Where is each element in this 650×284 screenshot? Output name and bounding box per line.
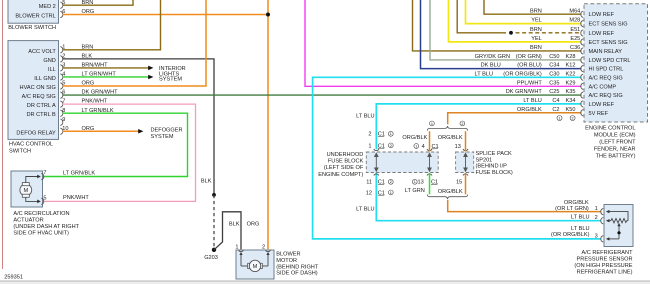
brace split top (427, 126, 468, 131)
svg-text:1: 1 (390, 132, 392, 136)
svg-text:4: 4 (422, 144, 425, 150)
svg-text:BLOWER SWITCH: BLOWER SWITCH (8, 25, 56, 31)
svg-text:GND: GND (43, 58, 55, 64)
svg-text:FUSE BLOCK: FUSE BLOCK (328, 159, 364, 165)
internal wire to pin 7 (26, 177, 38, 183)
motor M circle (20, 184, 32, 196)
svg-text:ACC VOLT: ACC VOLT (28, 49, 56, 55)
svg-text:A/C RECIRCULATION: A/C RECIRCULATION (13, 211, 69, 217)
fuse block pin labels right top (414, 144, 439, 150)
svg-text:1: 1 (390, 191, 392, 195)
svg-text:7: 7 (43, 170, 46, 176)
svg-text:(OR LT GRN): (OR LT GRN) (555, 206, 589, 212)
svg-text:ECT SENS SIG: ECT SENS SIG (589, 40, 628, 46)
svg-text:M28: M28 (569, 18, 580, 24)
wire BLK blower motor to ground (214, 212, 241, 250)
svg-text:(UNDER DASH AT RIGHT: (UNDER DASH AT RIGHT (13, 224, 79, 230)
splice pack (456, 149, 474, 176)
svg-text:LT BLU: LT BLU (571, 214, 589, 220)
svg-text:ORG/BLK: ORG/BLK (517, 107, 542, 113)
svg-text:C30: C30 (549, 71, 559, 77)
svg-text:MED 2: MED 2 (39, 4, 56, 10)
svg-text:M: M (23, 188, 28, 194)
svg-text:ENGINE COMPT): ENGINE COMPT) (318, 172, 363, 178)
page bottom line (0, 280, 650, 282)
svg-text:K34: K34 (566, 98, 576, 104)
svg-text:K22: K22 (566, 71, 576, 77)
wire DK GRN/WHT HVAC pin 6 to ECM A/C REQ SIG (63, 94, 582, 96)
svg-text:1: 1 (431, 122, 433, 126)
svg-text:A/C REQ SIG: A/C REQ SIG (589, 93, 623, 99)
wire BLK HVAC pin 2 (63, 59, 215, 195)
svg-text:1: 1 (368, 143, 371, 149)
svg-text:C36: C36 (570, 45, 580, 51)
fuse block pin labels left top (368, 131, 393, 149)
svg-text:ILL GND: ILL GND (34, 76, 56, 82)
pin 5 blower switch (60, 2, 62, 8)
svg-text:9: 9 (62, 117, 65, 123)
svg-text:A/C REQ SIG: A/C REQ SIG (22, 94, 56, 100)
svg-text:2: 2 (595, 215, 598, 221)
svg-text:E25: E25 (570, 36, 580, 42)
ECM (557, 4, 648, 122)
svg-text:ORG/BLK: ORG/BLK (438, 189, 463, 195)
svg-text:SWITCH: SWITCH (9, 149, 31, 155)
ECM pin arcs (581, 11, 583, 116)
svg-text:2: 2 (461, 122, 463, 126)
svg-text:BLK: BLK (201, 178, 212, 184)
fuse block pin labels left bottom (366, 179, 393, 196)
svg-text:SPLICE PACK: SPLICE PACK (476, 151, 513, 157)
svg-text:(OR ORG/BLK): (OR ORG/BLK) (551, 232, 590, 238)
svg-text:K50: K50 (566, 107, 576, 113)
motor wiring (241, 265, 248, 267)
wire LT GRN/BLK HVAC pin 8 to actuator pin 7 (43, 113, 188, 176)
svg-text:K28: K28 (566, 54, 576, 60)
svg-text:GRY/DK GRN: GRY/DK GRN (475, 54, 510, 60)
svg-text:2: 2 (390, 180, 392, 184)
svg-text:LOW REF: LOW REF (589, 12, 615, 18)
svg-text:A/C REQ SIG: A/C REQ SIG (589, 75, 623, 81)
wire LT BLU inner ECM LOW REF to fuse block (376, 104, 581, 149)
svg-text:REFRIGERANT LINE): REFRIGERANT LINE) (577, 269, 633, 275)
svg-text:ORG: ORG (247, 221, 260, 227)
wire ORG/BLK from ECM 5V REF (448, 113, 582, 124)
wiper arm (617, 223, 620, 226)
svg-text:G203: G203 (204, 255, 218, 261)
wire LT BLU outer loop ECM A/C REQ SIG to sensor pin 3 (313, 77, 601, 239)
svg-text:K29: K29 (566, 80, 576, 86)
svg-text:11: 11 (366, 180, 372, 186)
wire LT BLU fuse block to sensor pin 2 (376, 173, 600, 221)
wire BLK dashed to ground (213, 195, 215, 248)
pin 1 arrow (239, 252, 242, 255)
svg-text:A/C COMP: A/C COMP (589, 84, 617, 90)
wire LT GRN/WHT HVAC pin 4 to interior lights (63, 76, 149, 78)
svg-text:C2: C2 (552, 107, 559, 113)
wire ORG vertical to blower motor pin 2 (267, 0, 269, 249)
svg-text:(ON HIGH PRESSURE: (ON HIGH PRESSURE (574, 263, 632, 269)
svg-text:SYSTEM: SYSTEM (159, 77, 182, 83)
svg-text:LT BLU: LT BLU (356, 113, 374, 119)
blower motor (236, 250, 274, 279)
svg-text:2: 2 (262, 245, 265, 251)
wire ORG HVAC pin 5 to top edge (63, 0, 207, 86)
svg-text:(OR ORG/BLK): (OR ORG/BLK) (503, 71, 542, 77)
svg-text:13: 13 (455, 144, 461, 150)
wire BRN to ECM LOW REF M64 (484, 0, 582, 14)
svg-text:1: 1 (595, 206, 598, 212)
junction dot ORG (266, 13, 270, 17)
svg-text:K35: K35 (566, 89, 576, 95)
svg-text:DEFOG RELAY: DEFOG RELAY (16, 130, 56, 136)
wire YEL to ECM ECT SENS SIG E25 (449, 0, 582, 42)
HVAC pin numbers (62, 44, 68, 131)
svg-text:SP201: SP201 (476, 157, 493, 163)
wire ORG/BLK merged to sensor pin 1 (448, 200, 601, 212)
ground G203 (212, 248, 216, 252)
svg-text:YEL: YEL (531, 18, 542, 24)
svg-text:3: 3 (595, 233, 598, 239)
svg-text:PNK/WHT: PNK/WHT (63, 195, 89, 201)
svg-text:SIDE OF HVAC UNIT): SIDE OF HVAC UNIT) (13, 231, 69, 237)
svg-text:MOTOR: MOTOR (276, 258, 297, 264)
HVAC control switch (8, 41, 59, 140)
svg-text:THE BATTERY): THE BATTERY) (596, 154, 636, 160)
svg-text:ACTUATOR: ACTUATOR (13, 218, 43, 224)
svg-text:1: 1 (235, 245, 238, 251)
svg-text:13: 13 (417, 180, 423, 186)
wire PPL/WHT from top edge to ECM A/C COMP (305, 0, 582, 86)
svg-text:C25: C25 (549, 89, 559, 95)
fuse block pin arcs (374, 149, 432, 176)
pin 1 internal (606, 210, 610, 213)
wire BRN/WHT HVAC pin 3 to interior lights (63, 67, 149, 69)
svg-text:LOW REF: LOW REF (589, 102, 615, 108)
motor pin 2 (266, 250, 271, 252)
svg-text:5: 5 (43, 195, 46, 201)
svg-text:1: 1 (558, 117, 560, 121)
svg-text:SIDE OF DASH): SIDE OF DASH) (276, 271, 317, 277)
HVAC pin arcs 1-10 (60, 47, 62, 135)
svg-text:C50: C50 (549, 54, 559, 60)
svg-text:LT BLU: LT BLU (475, 71, 493, 77)
svg-text:DK BLU: DK BLU (481, 63, 501, 69)
A/C recirculation actuator (11, 171, 43, 207)
svg-text:LT GRN/BLK: LT GRN/BLK (63, 170, 95, 176)
svg-text:C35: C35 (549, 80, 559, 86)
svg-text:K12: K12 (566, 63, 576, 69)
svg-text:DR CTRL A: DR CTRL A (27, 103, 56, 109)
svg-text:2: 2 (390, 144, 392, 148)
svg-text:FENDER, NEAR: FENDER, NEAR (594, 147, 636, 153)
wire ORG HVAC pin 10 to defogger system (63, 130, 139, 132)
svg-text:C34: C34 (549, 63, 559, 69)
svg-text:ORG/BLK: ORG/BLK (438, 135, 463, 141)
wire DK BLU to ECM HI SPD CTRL (421, 0, 582, 69)
svg-text:1: 1 (414, 180, 416, 184)
junction dot BLK (212, 193, 216, 197)
circled 2 branch (460, 121, 465, 126)
svg-text:2: 2 (572, 117, 574, 121)
svg-text:BRN: BRN (530, 45, 542, 51)
svg-text:MAIN RELAY: MAIN RELAY (589, 49, 623, 55)
svg-text:BLOWER: BLOWER (276, 252, 300, 258)
svg-text:M64: M64 (569, 8, 580, 14)
svg-text:BLK: BLK (229, 221, 240, 227)
svg-text:M: M (253, 264, 258, 270)
svg-text:HI SPD CTRL: HI SPD CTRL (589, 67, 624, 73)
pin 6 blower switch (60, 11, 62, 17)
wire BRN from blower switch pin 5 to top edge (63, 0, 134, 5)
pin 3 internal (606, 237, 610, 240)
svg-text:E51: E51 (570, 27, 580, 33)
svg-text:5V REF: 5V REF (589, 111, 609, 117)
svg-text:ILL: ILL (48, 67, 56, 73)
wire BRN to ECM MAIN RELAY (413, 0, 582, 51)
svg-text:LT BLU: LT BLU (571, 226, 589, 232)
svg-text:DR CTRL B: DR CTRL B (26, 112, 56, 118)
svg-text:MODULE (ECM): MODULE (ECM) (594, 133, 636, 139)
svg-text:LOW REF: LOW REF (589, 31, 615, 37)
wire ORG/BLK splice pack pin 15 out (465, 173, 467, 194)
page left trim line (2, 0, 4, 269)
A/C refrigerant pressure sensor (604, 205, 633, 247)
wire BRN to ECM LOW REF E51 (457, 0, 506, 33)
wire GRY/DK GRN to ECM LOW SPD CTRL (430, 0, 582, 60)
svg-text:(OR GRN): (OR GRN) (516, 54, 542, 60)
motor pin 1 (239, 250, 244, 252)
sensor pin arcs (601, 208, 603, 242)
svg-text:ECT SENS SIG: ECT SENS SIG (589, 22, 628, 28)
svg-text:DEFOGGER: DEFOGGER (151, 128, 183, 134)
internal wire to pin 5 (26, 197, 38, 201)
svg-text:LT BLU: LT BLU (523, 98, 541, 104)
svg-text:1: 1 (415, 144, 417, 148)
circled 1 branch (430, 121, 435, 126)
actuator pin 5 (41, 198, 43, 204)
wire PNK/WHT HVAC pin 7 to actuator pin 5 (43, 104, 196, 201)
pin 2 arrow (266, 252, 269, 255)
wire YEL to ECM ECT SENS SIG M28 (466, 0, 582, 24)
svg-text:ORG: ORG (82, 9, 95, 15)
underhood fuse block (366, 152, 438, 173)
fuse block pin labels right bottom (412, 179, 438, 185)
svg-text:ORG/BLK: ORG/BLK (402, 135, 427, 141)
svg-text:HVAC CONTROL: HVAC CONTROL (9, 142, 53, 148)
wire BRN HVAC pin 1 to top edge (63, 0, 161, 50)
svg-text:PRESSURE SENSOR: PRESSURE SENSOR (577, 256, 633, 262)
svg-text:BLOWER CTRL: BLOWER CTRL (15, 13, 55, 19)
svg-text:(BEHIND RIGHT: (BEHIND RIGHT (276, 264, 319, 270)
svg-text:BRN: BRN (82, 0, 94, 6)
svg-text:YEL: YEL (531, 36, 542, 42)
svg-text:15: 15 (456, 180, 462, 186)
pin 2 internal + resistor (606, 219, 610, 222)
svg-text:DK GRN/WHT: DK GRN/WHT (506, 89, 543, 95)
brace merge bottom (427, 194, 468, 199)
svg-text:LT GRN: LT GRN (405, 188, 425, 194)
svg-text:ORG/BLK: ORG/BLK (564, 200, 589, 206)
svg-text:2: 2 (368, 132, 371, 138)
svg-text:BRN: BRN (530, 27, 542, 33)
actuator pin 7 (41, 173, 43, 179)
svg-text:(OR BLU): (OR BLU) (517, 63, 542, 69)
brush rects (22, 183, 29, 186)
svg-text:(LEFT SIDE OF: (LEFT SIDE OF (324, 165, 364, 171)
blower switch (8, 0, 59, 23)
HVAC wire labels (82, 44, 119, 131)
svg-text:ENGINE CONTROL: ENGINE CONTROL (585, 126, 635, 132)
svg-text:259351: 259351 (4, 275, 23, 281)
ECM footnote circles (557, 116, 562, 121)
svg-text:HVAC ON SIG: HVAC ON SIG (20, 85, 56, 91)
fuse element arrows (375, 153, 432, 171)
svg-text:LOW SPD CTRL: LOW SPD CTRL (589, 58, 631, 64)
wire LT GRN fuse block pin 13 out (429, 173, 431, 194)
svg-text:UNDERHOOD: UNDERHOOD (327, 152, 364, 158)
svg-text:BRN: BRN (530, 8, 542, 14)
wire ORG/BLK branch 1 to fuse block pin 4 (429, 131, 431, 151)
svg-text:PPL/WHT: PPL/WHT (517, 80, 542, 86)
svg-text:LT BLU: LT BLU (356, 207, 374, 213)
wire ORG/BLK branch 2 to splice pack pin 13 (465, 131, 467, 151)
svg-text:(BEHIND I/P: (BEHIND I/P (476, 164, 508, 170)
svg-text:SYSTEM: SYSTEM (151, 134, 174, 140)
svg-text:A/C REFRIGERANT: A/C REFRIGERANT (582, 250, 634, 256)
svg-text:(LEFT FRONT: (LEFT FRONT (599, 140, 636, 146)
svg-text:12: 12 (366, 190, 372, 196)
svg-text:C4: C4 (552, 98, 559, 104)
wire ORG from blower switch pin 6 to junction (63, 14, 269, 16)
svg-text:FUSE BLOCK): FUSE BLOCK) (476, 170, 513, 176)
